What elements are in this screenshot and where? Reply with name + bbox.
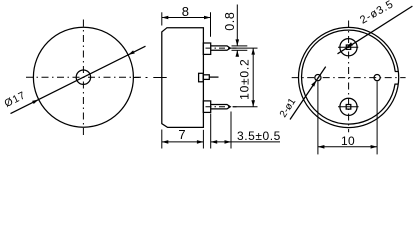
svg-text:3.5±0.5: 3.5±0.5	[237, 129, 281, 143]
svg-text:7: 7	[178, 127, 185, 142]
svg-text:0.8: 0.8	[223, 12, 237, 31]
svg-text:10: 10	[341, 134, 355, 148]
svg-text:8: 8	[182, 4, 189, 19]
svg-text:10±0.2: 10±0.2	[238, 58, 252, 99]
